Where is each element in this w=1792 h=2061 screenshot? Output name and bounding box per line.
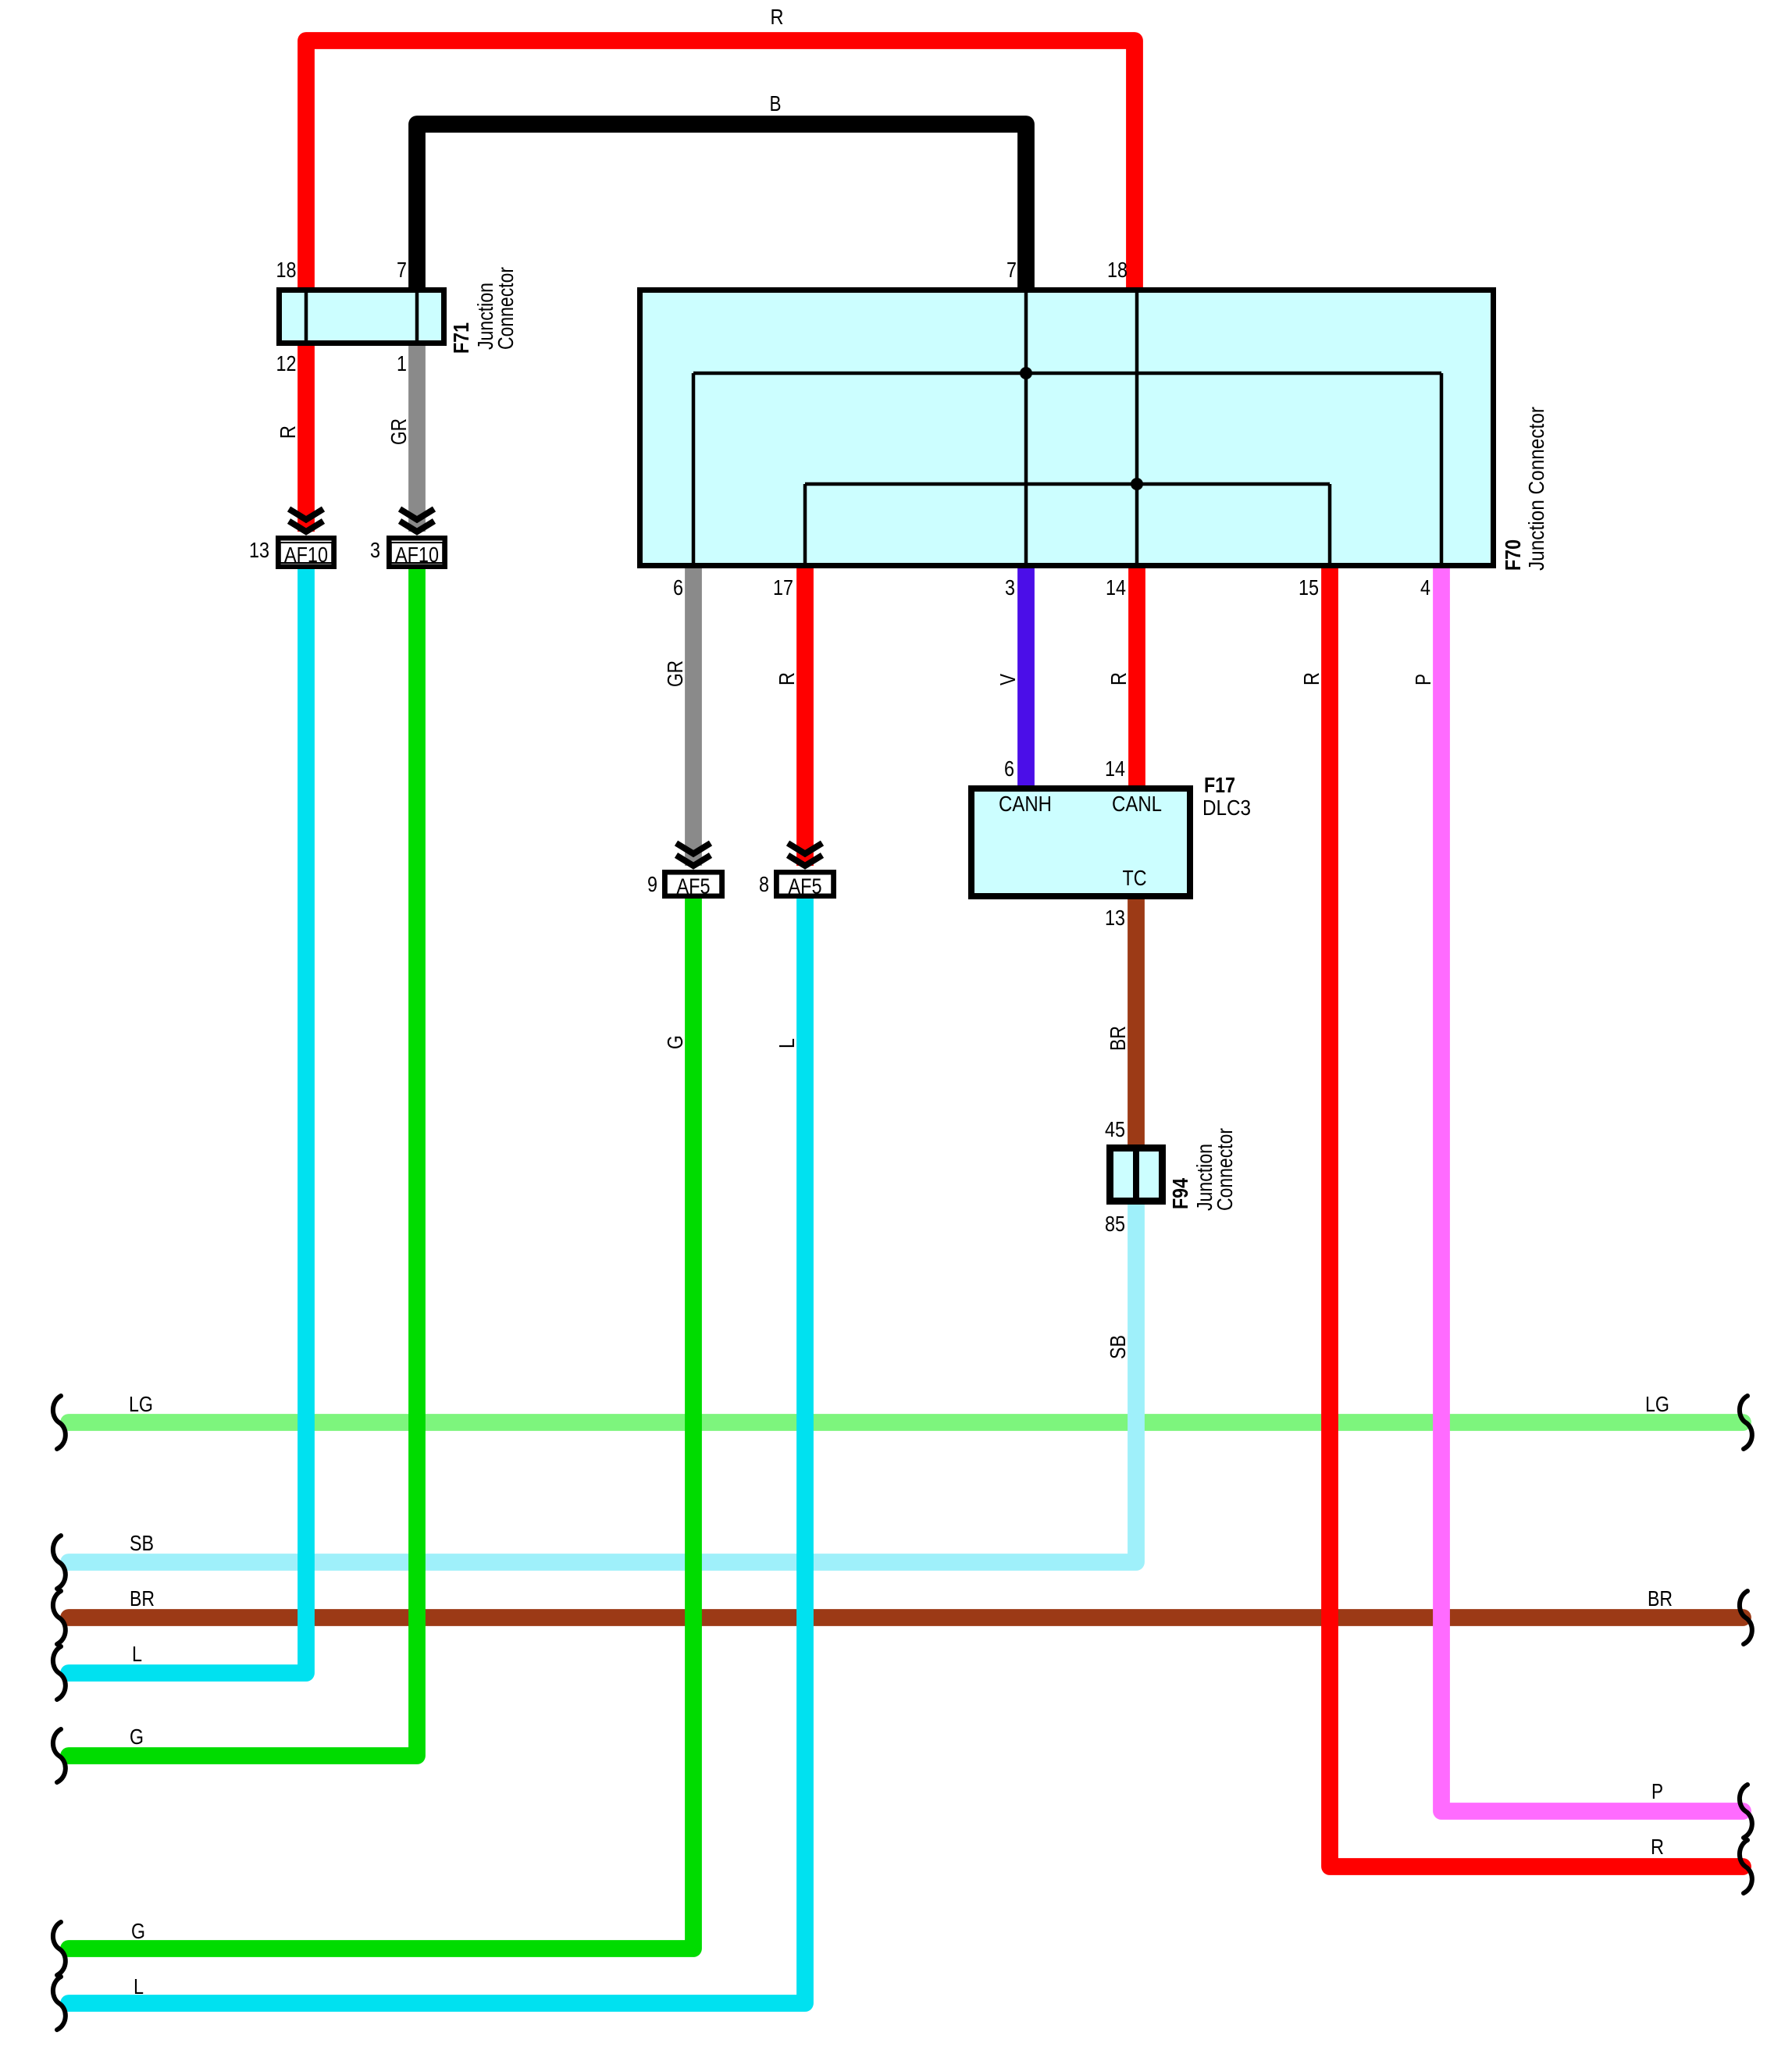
- page-break squiggle right of P wire: [1740, 1785, 1752, 1838]
- connector tag AF5 (pin 9) outer box: [664, 872, 722, 896]
- svg-text:P: P: [1651, 1779, 1663, 1803]
- F70 junction dot lower: [1131, 478, 1143, 490]
- wire B from F71 pin 7 across to F70 pin 7: [417, 124, 1026, 297]
- svg-text:AF5: AF5: [789, 874, 822, 899]
- svg-text:GR: GR: [663, 660, 687, 687]
- F70 internal bus lower horizontal: [805, 482, 1330, 486]
- page-break squiggle left of BR wire: [53, 1591, 66, 1644]
- wire GR from F71 pin 1 down to AF10 arrow: [408, 343, 426, 532]
- wire R from F70 pin 15 down and right to page edge: [1330, 565, 1743, 1867]
- wire R from F71 pin 18 up across to F70 pin 18: [306, 41, 1135, 297]
- wire BR from DLC3 TC pin 13 down to F94 pin 45: [1128, 895, 1145, 1149]
- wire R from F70 pin 14 down to DLC3 CANL: [1128, 565, 1145, 790]
- page-break squiggle left of L lower wire: [53, 1977, 66, 2030]
- double-chevron arrow into AF5 pin 8: [788, 843, 822, 866]
- svg-text:B: B: [770, 91, 782, 116]
- svg-text:3: 3: [1005, 575, 1015, 600]
- F70 internal drop to pin 15: [1328, 484, 1332, 568]
- F70 internal bus line pin18-pin14: [1135, 287, 1139, 568]
- junction connector F70 box: [640, 290, 1494, 566]
- connector tag AF5 (pin 9) inner frame: [667, 874, 720, 895]
- svg-text:R: R: [1299, 672, 1324, 685]
- svg-text:15: 15: [1299, 575, 1319, 600]
- page-break squiggle left of SB wire: [53, 1536, 66, 1589]
- svg-text:G: G: [663, 1035, 687, 1049]
- wire G from AF10 pin 3 down and left to page edge: [69, 564, 417, 1756]
- svg-text:AF10: AF10: [395, 543, 439, 567]
- svg-text:L: L: [775, 1038, 799, 1048]
- F70 internal bus upper horizontal: [693, 372, 1441, 376]
- svg-text:6: 6: [1004, 756, 1014, 781]
- wire L from AF5 pin 8 down and left to page edge: [69, 896, 805, 2003]
- junction connector F94 box: [1110, 1148, 1163, 1201]
- wire GR from F70 pin 6 down to AF5 arrow: [685, 565, 702, 866]
- svg-text:CANL: CANL: [1112, 792, 1162, 816]
- svg-text:CANH: CANH: [999, 792, 1052, 816]
- page-break squiggle left of L wire: [53, 1646, 66, 1700]
- connector tag AF5 (pin 8) outer box: [776, 872, 834, 896]
- F70 internal bus line pin7-pin3: [1024, 287, 1028, 568]
- svg-text:F94: F94: [1168, 1178, 1192, 1209]
- svg-text:F70: F70: [1501, 539, 1525, 571]
- svg-text:4: 4: [1420, 575, 1430, 600]
- F71 pin 7/1 cell divider: [415, 287, 419, 346]
- F70 junction dot upper: [1020, 367, 1032, 379]
- wire G from AF5 pin 9 down and left to page edge: [69, 896, 693, 1949]
- svg-text:14: 14: [1105, 756, 1125, 781]
- page-break squiggle right of LG wire: [1740, 1396, 1752, 1449]
- page-break squiggle right of R wire: [1740, 1840, 1752, 1893]
- svg-text:6: 6: [673, 575, 683, 600]
- svg-text:LG: LG: [129, 1392, 153, 1416]
- connector tag AF10 (pin 3) inner frame: [391, 543, 443, 563]
- connector tag AF5 (pin 8) inner frame: [778, 874, 832, 895]
- F94 cell divider: [1133, 1144, 1139, 1205]
- wire V from F70 pin 3 down to DLC3 CANH: [1017, 565, 1035, 790]
- svg-text:JunctionConnector: JunctionConnector: [473, 267, 518, 350]
- svg-text:9: 9: [647, 872, 657, 896]
- junction connector F71 box: [280, 290, 444, 343]
- svg-text:Junction Connector: Junction Connector: [1524, 407, 1548, 571]
- svg-text:R: R: [771, 5, 784, 29]
- svg-text:45: 45: [1105, 1117, 1125, 1141]
- svg-text:7: 7: [397, 258, 407, 282]
- double-chevron arrow into AF5 pin 9: [676, 843, 711, 866]
- connector F17 DLC3 box: [971, 788, 1190, 896]
- svg-text:7: 7: [1006, 258, 1017, 282]
- wire BR (brown) horizontal through-wire: [69, 1609, 1743, 1626]
- svg-text:AF5: AF5: [677, 874, 711, 899]
- svg-text:P: P: [1411, 674, 1435, 685]
- svg-text:DLC3: DLC3: [1202, 796, 1251, 820]
- svg-text:F71: F71: [449, 322, 473, 354]
- connector tag AF10 (pin 3) outer box: [389, 538, 445, 567]
- svg-text:V: V: [996, 674, 1020, 685]
- svg-text:AF10: AF10: [284, 543, 328, 567]
- svg-text:8: 8: [759, 872, 769, 896]
- connector tag AF10 (pin 13) outer box: [278, 538, 334, 567]
- svg-text:G: G: [130, 1725, 144, 1749]
- svg-text:R: R: [1651, 1835, 1664, 1859]
- svg-text:18: 18: [276, 258, 297, 282]
- svg-text:BR: BR: [1648, 1586, 1673, 1611]
- wire L from AF10 pin 13 down and left to page edge: [69, 564, 306, 1673]
- svg-text:R: R: [775, 672, 799, 685]
- svg-text:LG: LG: [1645, 1392, 1669, 1416]
- F71 pin 18/12 cell divider: [305, 287, 308, 346]
- double-chevron arrow into AF10 pin 3: [400, 509, 434, 532]
- svg-text:1: 1: [397, 351, 407, 376]
- svg-text:R: R: [276, 425, 300, 439]
- F70 internal drop to pin 17: [803, 484, 807, 568]
- wire P from F70 pin 4 down and right to page edge: [1441, 565, 1743, 1811]
- svg-text:L: L: [134, 1974, 144, 1999]
- wire SB from F94 pin 85 down and left to page edge: [69, 1202, 1136, 1562]
- svg-text:13: 13: [1105, 906, 1125, 930]
- svg-text:3: 3: [370, 538, 380, 562]
- page-break squiggle left of G lower wire: [53, 1922, 66, 1975]
- svg-text:F17: F17: [1204, 773, 1235, 797]
- double-chevron arrow into AF10 pin 13: [289, 509, 323, 532]
- page-break squiggle right of BR wire: [1740, 1591, 1752, 1644]
- svg-text:12: 12: [276, 351, 297, 376]
- page-break squiggle left of G wire: [53, 1729, 66, 1782]
- svg-text:17: 17: [773, 575, 793, 600]
- wire LG (light green) horizontal through-wire: [69, 1414, 1743, 1431]
- svg-text:13: 13: [249, 538, 269, 562]
- svg-text:G: G: [131, 1919, 145, 1943]
- F70 internal drop to pin 6: [692, 373, 696, 568]
- wire R from F70 pin 17 down to AF5 arrow: [796, 565, 814, 866]
- page-break squiggle left of LG wire: [53, 1396, 66, 1449]
- svg-text:14: 14: [1106, 575, 1126, 600]
- svg-text:R: R: [1106, 672, 1131, 685]
- svg-text:SB: SB: [1106, 1335, 1130, 1359]
- F70 internal drop to pin 4: [1440, 373, 1444, 568]
- svg-text:BR: BR: [130, 1586, 155, 1611]
- svg-text:BR: BR: [1106, 1026, 1130, 1051]
- svg-text:TC: TC: [1123, 866, 1147, 890]
- svg-text:SB: SB: [130, 1531, 154, 1555]
- svg-text:GR: GR: [387, 418, 411, 445]
- connector tag AF10 (pin 13) inner frame: [280, 543, 332, 563]
- svg-text:JunctionConnector: JunctionConnector: [1192, 1128, 1237, 1211]
- svg-text:18: 18: [1107, 258, 1128, 282]
- svg-text:85: 85: [1105, 1212, 1125, 1236]
- wire R from F71 pin 12 down to AF10 arrow: [297, 343, 315, 532]
- svg-text:L: L: [132, 1642, 142, 1666]
